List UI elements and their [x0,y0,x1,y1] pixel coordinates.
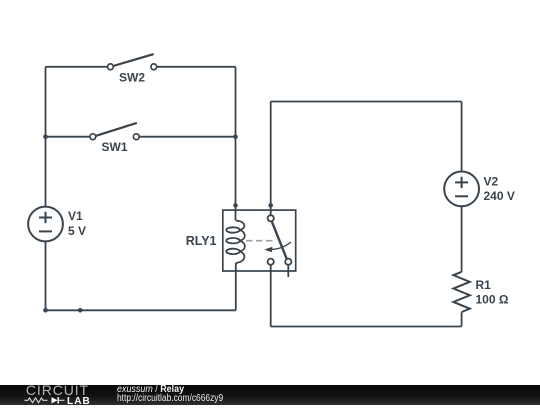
node A: left rail / SW1 [43,134,48,139]
relay coil [226,221,245,264]
relay arrow [267,242,291,249]
svg-text:SW1: SW1 [101,140,127,154]
wire coil bottom to bottom rail [235,263,237,310]
wire relay common down [270,265,272,327]
relay lever [272,221,287,258]
resistor R1 [453,272,469,312]
logo resistor+diode glyph [24,396,66,405]
node: relay switch top terminal [268,203,273,208]
wire right loop top [271,101,462,103]
relay contact circles [268,215,274,221]
relay dashed link [246,240,274,242]
node: bottom left corner [43,308,48,313]
wire right loop right vertical upper [461,102,463,172]
wire left rail top [45,67,47,207]
svg-text:240 V: 240 V [484,189,515,203]
footer meta line 1 [117,384,195,396]
switch SW2 [108,54,157,84]
voltage source V1 [28,207,63,242]
relay RLY1 box [223,210,296,271]
switch SW1 [90,123,139,154]
svg-text:RLY1: RLY1 [186,234,217,248]
footer bar [0,385,540,406]
wire V2 to R1 [461,206,463,271]
relay NC stub [287,265,289,277]
wire right loop bottom [271,326,462,328]
wire top rail (SW2 row) [46,66,111,68]
svg-text:V1: V1 [68,209,83,223]
wire bottom rail left loop [46,309,236,311]
svg-text:R1: R1 [476,278,492,292]
wire below R1 [461,312,463,326]
junction dots [43,134,273,312]
svg-text:5 V: 5 V [68,224,86,238]
wire left rail bottom [45,241,47,310]
node: bottom rail junction [78,308,83,313]
voltage source V2 [444,172,479,207]
CircuitLab logo text [26,383,89,399]
svg-text:100 Ω: 100 Ω [476,293,509,307]
svg-text:SW2: SW2 [119,71,145,85]
svg-text:V2: V2 [484,174,499,188]
wire right rail of left loop into relay coil [235,67,237,221]
wire SW1 row [46,136,93,138]
node: coil top terminal [233,203,238,208]
footer meta line 2 [117,393,248,405]
wire right loop left vertical [270,102,272,216]
node B: right rail / SW1 [233,134,238,139]
